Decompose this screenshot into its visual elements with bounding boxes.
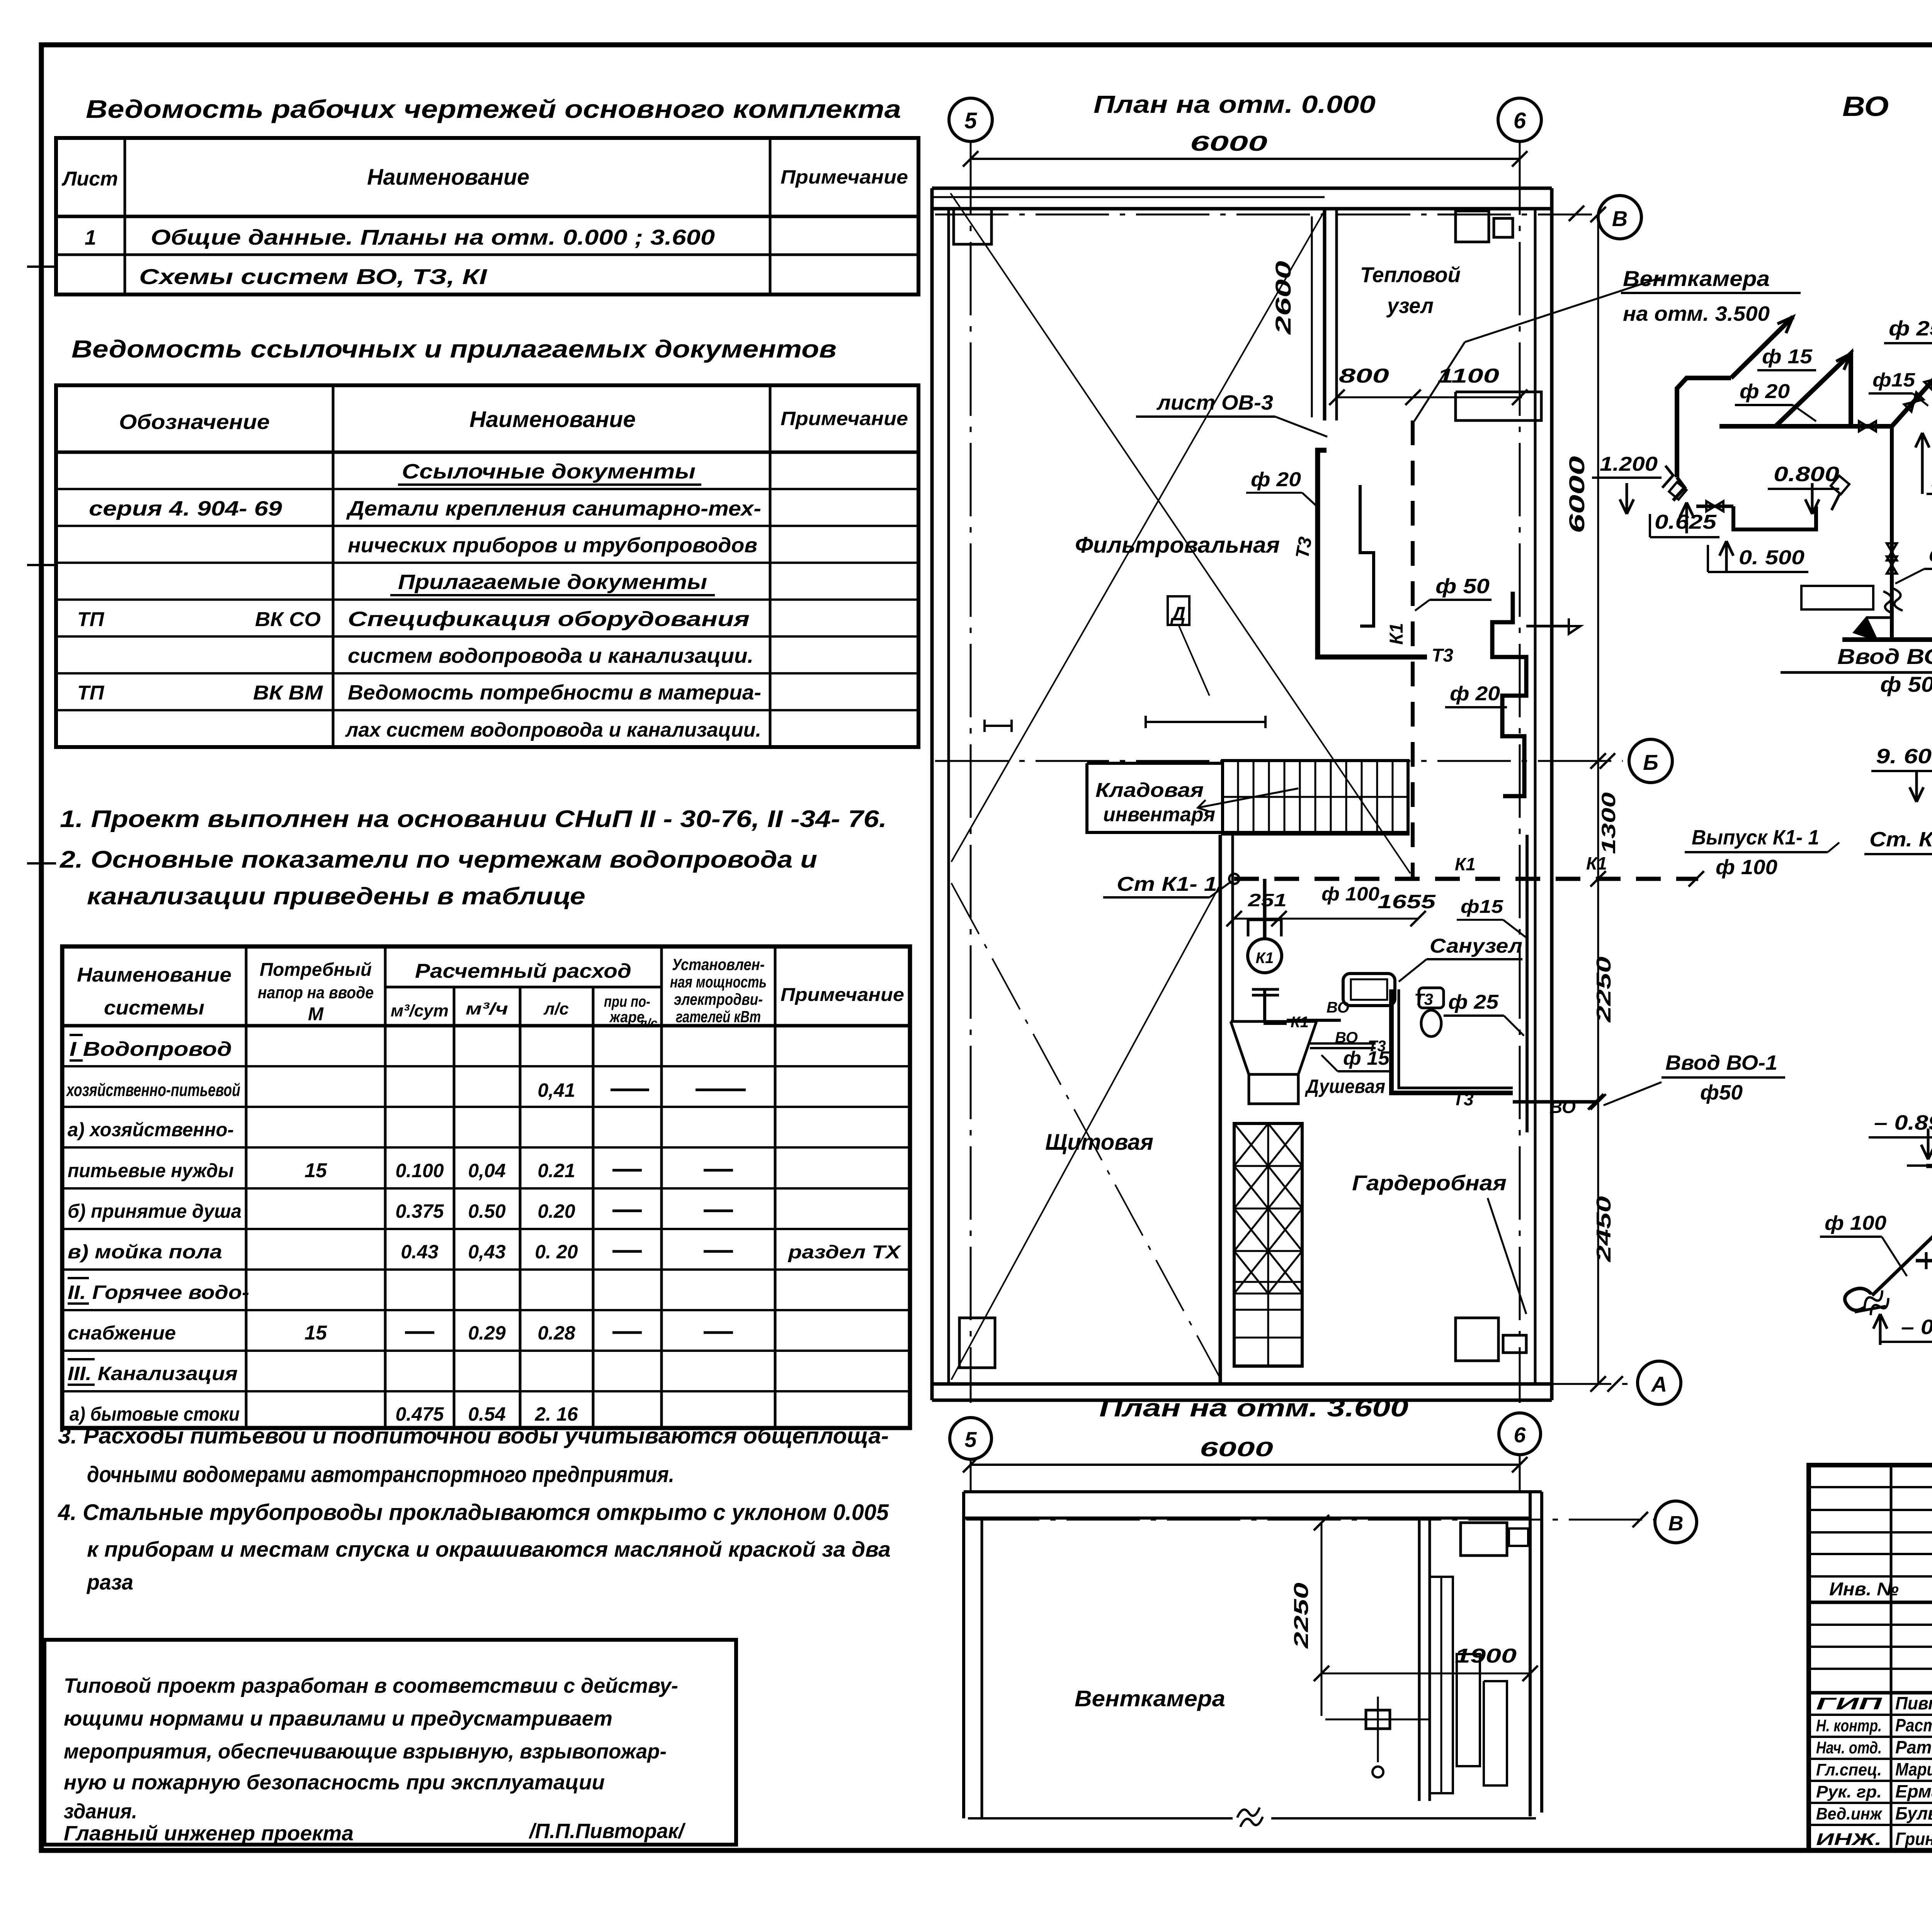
- axis A circle: [1638, 1361, 1681, 1404]
- svg-text:Т3: Т3: [1432, 645, 1453, 666]
- svg-text:Фильтровальная: Фильтровальная: [1075, 533, 1280, 558]
- svg-text:Венткамера: Венткамера: [1623, 266, 1770, 291]
- axis B line: [935, 214, 1592, 216]
- table 1 grid: [56, 138, 918, 294]
- svg-text:I Водопровод: I Водопровод: [70, 1038, 232, 1060]
- funnel branch down-left diagonal: [1872, 1166, 1932, 1295]
- St K1-1 label: [1229, 874, 1239, 884]
- diag cross hall upper: [951, 193, 1410, 873]
- lower sector walls: [1219, 835, 1222, 1384]
- svg-text:К1: К1: [1455, 854, 1476, 874]
- svg-text:ф 100: ф 100: [1321, 883, 1379, 905]
- svg-text:ВО: ВО: [1327, 999, 1349, 1016]
- svg-text:ИНЖ.: ИНЖ.: [1816, 1830, 1882, 1849]
- svg-text:План на отм. 0.000: План на отм. 0.000: [1094, 90, 1376, 118]
- svg-text:Б: Б: [1643, 750, 1658, 774]
- svg-text:ф 15: ф 15: [1762, 346, 1813, 368]
- svg-text:а) хозяйственно-: а) хозяйственно-: [68, 1119, 234, 1140]
- svg-text:ВО: ВО: [1842, 91, 1889, 122]
- svg-text:800: 800: [1339, 365, 1389, 387]
- svg-text:ВК ВМ: ВК ВМ: [253, 682, 323, 704]
- mid rows: [1809, 1624, 1932, 1626]
- svg-text:Лист: Лист: [61, 168, 118, 190]
- svg-text:Выпуск К1- 1: Выпуск К1- 1: [1692, 826, 1819, 849]
- svg-text:0.21: 0.21: [537, 1160, 575, 1181]
- inner right details: [1461, 1523, 1507, 1556]
- svg-text:Инв. №: Инв. №: [1829, 1579, 1899, 1600]
- dim 1900: [1321, 1673, 1530, 1675]
- svg-text:ную и пожарную безопасност: ную и пожарную безопасность при эксплуат…: [64, 1771, 605, 1794]
- svg-text:Гл.спец.: Гл.спец.: [1816, 1760, 1882, 1779]
- svg-text:– 0.897: – 0.897: [1874, 1111, 1932, 1134]
- svg-text:Щитовая: Щитовая: [1045, 1130, 1153, 1155]
- pipe T3 thick upper: [1318, 450, 1427, 657]
- svg-text:Кладовая: Кладовая: [1095, 779, 1204, 802]
- svg-text:Примечание: Примечание: [781, 985, 904, 1005]
- сифон bottom left: [1845, 1288, 1871, 1311]
- callout rect: [1801, 586, 1873, 609]
- D box: [1168, 596, 1189, 625]
- thick T3 pipe lower: [1391, 989, 1513, 1093]
- svg-text:в) мойка пола: в) мойка пола: [68, 1241, 222, 1263]
- svg-text:2. 16: 2. 16: [534, 1403, 578, 1425]
- svg-text:15: 15: [304, 1322, 327, 1344]
- svg-text:1655: 1655: [1378, 891, 1436, 912]
- svg-text:0,43: 0,43: [468, 1241, 506, 1263]
- svg-text:Ермакова: Ермакова: [1895, 1781, 1932, 1801]
- svg-text:Ст К1- 1: Ст К1- 1: [1117, 873, 1217, 895]
- axis 5 line: [970, 141, 972, 1403]
- svg-text:питьевые нужды: питьевые нужды: [68, 1160, 234, 1181]
- svg-text:ющими нормами и правилами: ющими нормами и правилами и предусматрив…: [64, 1707, 612, 1730]
- axis 5 circle lower: [950, 1418, 992, 1459]
- svg-text:ф 20: ф 20: [1450, 683, 1500, 705]
- svg-text:Спецификация оборудования: Спецификация оборудования: [348, 608, 750, 631]
- svg-text:– 0.86 4: – 0.86 4: [1901, 1316, 1932, 1339]
- seam marks left of stair: [985, 725, 1012, 727]
- svg-text:системы: системы: [104, 997, 204, 1019]
- svg-text:Санузел: Санузел: [1430, 935, 1522, 957]
- svg-text:м³/ч: м³/ч: [466, 999, 508, 1018]
- svg-text:мероприятия, обеспечивающие: мероприятия, обеспечивающие взрывную, вз…: [64, 1740, 667, 1763]
- svg-text:ф 100: ф 100: [1825, 1212, 1886, 1234]
- svg-text:нических приборов и трубопр: нических приборов и трубопроводов: [348, 534, 757, 557]
- svg-text:лах систем водопровода и к: лах систем водопровода и канализации.: [345, 719, 761, 741]
- svg-text:Схемы систем ВО, ТЗ, КI: Схемы систем ВО, ТЗ, КI: [139, 264, 488, 289]
- svg-text:/П.П.Пивторак/: /П.П.Пивторак/: [529, 1819, 686, 1843]
- vent chamber leader: [1465, 277, 1662, 342]
- heat unit south walls: [1456, 392, 1541, 420]
- svg-text:1. Проект выполнен на: 1. Проект выполнен на основании СНиП II …: [60, 806, 887, 832]
- sink fixture: [1343, 974, 1395, 1006]
- svg-text:Гринькина: Гринькина: [1895, 1829, 1932, 1849]
- svg-text:ф 25: ф 25: [1889, 317, 1932, 340]
- ввод ВО-1 leader: [1604, 1082, 1662, 1105]
- svg-text:2250: 2250: [1593, 957, 1615, 1023]
- right walls plan36: [1529, 1492, 1532, 1816]
- svg-text:ф50: ф50: [1700, 1081, 1743, 1104]
- svg-text:дочными водомерами автотра: дочными водомерами автотранспортного пре…: [87, 1462, 674, 1487]
- svg-text:II. Горячее водо-: II. Горячее водо-: [68, 1282, 249, 1303]
- column top-right: [1456, 211, 1489, 242]
- svg-text:ф 15: ф 15: [1343, 1047, 1390, 1069]
- staff rows: [1809, 1714, 1932, 1716]
- diag chain with valves: [1892, 326, 1932, 426]
- svg-text:Т3: Т3: [1292, 535, 1316, 560]
- title block vertical dividers left part: [1890, 1465, 1893, 1850]
- svg-text:напор на вводе: напор на вводе: [258, 983, 374, 1002]
- right pipe loop f20: [1492, 592, 1526, 796]
- svg-text:1: 1: [85, 226, 96, 249]
- stair flight: [1223, 761, 1408, 834]
- svg-text:5: 5: [964, 1427, 977, 1452]
- svg-text:Ведомость потребности в мат: Ведомость потребности в материа-: [348, 681, 761, 704]
- VO diag to arrow f15: [1731, 317, 1793, 378]
- svg-text:К1: К1: [1586, 853, 1607, 873]
- shower tray: [1231, 1021, 1316, 1074]
- svg-text:канализации приведены: канализации приведены в таблице: [87, 883, 585, 910]
- svg-text:Общие данные. Планы на отм: Общие данные. Планы на отм. 0.000 ; 3.60…: [151, 225, 715, 249]
- VO riser down: [1890, 426, 1894, 640]
- svg-text:серия 4. 904- 69: серия 4. 904- 69: [89, 497, 282, 520]
- svg-text:1100: 1100: [1437, 365, 1499, 387]
- axis Б line: [935, 760, 1623, 762]
- wardrobe shelving: [1234, 1123, 1302, 1366]
- svg-text:6: 6: [1514, 108, 1526, 133]
- svg-text:хозяйственно-питьевой: хозяйственно-питьевой: [66, 1080, 240, 1100]
- svg-text:5: 5: [964, 108, 977, 133]
- table 2 grid: [56, 385, 918, 747]
- svg-text:Булычева: Булычева: [1895, 1803, 1932, 1823]
- dashed K1 horizontal: [1234, 877, 1698, 881]
- vertical dim line right: [1597, 214, 1599, 1384]
- svg-text:15: 15: [304, 1159, 327, 1182]
- svg-text:л/с: л/с: [543, 999, 569, 1018]
- svg-text:при по-: при по-: [604, 993, 650, 1010]
- svg-text:Пивторак: Пивторак: [1895, 1693, 1932, 1713]
- svg-text:6000: 6000: [1190, 131, 1267, 155]
- svg-text:Прилагаемые документы: Прилагаемые документы: [398, 570, 707, 594]
- svg-text:6000: 6000: [1200, 1438, 1273, 1461]
- svg-text:6: 6: [1514, 1423, 1526, 1447]
- svg-text:ф 20: ф 20: [1251, 468, 1301, 491]
- BO pipe lower: [1513, 1100, 1598, 1104]
- svg-text:Растунова: Растунова: [1895, 1715, 1932, 1735]
- svg-text:0.475: 0.475: [395, 1403, 444, 1425]
- dim 6000 lower: [971, 1464, 1520, 1466]
- axis B circle: [1598, 196, 1641, 239]
- bottom wall with break: [968, 1817, 1233, 1819]
- svg-text:План на отм. 3.600: План на отм. 3.600: [1099, 1394, 1408, 1422]
- typical project statement box: [44, 1640, 736, 1845]
- ground line VO: [1842, 637, 1932, 642]
- column bottom-left: [959, 1318, 995, 1368]
- svg-text:ф 100: ф 100: [1716, 856, 1777, 879]
- svg-text:здания.: здания.: [64, 1800, 137, 1823]
- svg-text:Наименование: Наименование: [469, 407, 636, 432]
- svg-text:0,41: 0,41: [537, 1079, 575, 1101]
- svg-text:Т3: Т3: [1414, 990, 1433, 1008]
- dashed K1 vertical: [1411, 420, 1415, 879]
- svg-text:1.200: 1.200: [1600, 453, 1658, 475]
- svg-text:Нач. отд.: Нач. отд.: [1816, 1738, 1882, 1757]
- svg-text:Примечание: Примечание: [781, 408, 908, 429]
- svg-text:Ведомость рабочих чертежей: Ведомость рабочих чертежей основного ком…: [86, 95, 901, 123]
- svg-text:Д: Д: [1170, 603, 1185, 625]
- svg-text:0.28: 0.28: [537, 1322, 575, 1344]
- svg-text:Наименование: Наименование: [367, 165, 529, 190]
- svg-text:0.43: 0.43: [401, 1241, 439, 1263]
- svg-text:9. 600: 9. 600: [1876, 745, 1932, 768]
- svg-text:0.100: 0.100: [395, 1160, 444, 1181]
- svg-text:ГИП: ГИП: [1816, 1694, 1883, 1713]
- svg-text:0.800: 0.800: [1774, 463, 1839, 486]
- dim 2250 vertical: [1321, 1523, 1323, 1716]
- svg-text:Ввод ВО-1: Ввод ВО-1: [1837, 644, 1932, 669]
- svg-text:Потребный: Потребный: [260, 960, 372, 980]
- svg-text:л/с: л/с: [639, 1016, 658, 1030]
- left thin rows top: [1809, 1486, 1932, 1488]
- svg-text:0. 500: 0. 500: [1739, 546, 1804, 569]
- axis Б circle: [1629, 739, 1672, 783]
- svg-text:ТП: ТП: [77, 608, 105, 631]
- big triangle shower: [1776, 354, 1851, 426]
- svg-text:ф15: ф15: [1461, 897, 1503, 917]
- svg-text:Расчетный расход: Расчетный расход: [415, 960, 631, 982]
- svg-text:Душевая: Душевая: [1304, 1076, 1385, 1097]
- svg-text:м³/сут: м³/сут: [391, 1001, 449, 1020]
- svg-text:Рук. гр.: Рук. гр.: [1816, 1782, 1882, 1801]
- svg-text:а) бытовые стоки: а) бытовые стоки: [70, 1403, 240, 1425]
- svg-text:электродви-: электродви-: [674, 990, 763, 1008]
- svg-text:ф 50: ф 50: [1929, 543, 1932, 566]
- toilet fixture санузел: [1419, 988, 1444, 1008]
- svg-text:Марионков: Марионков: [1895, 1759, 1932, 1779]
- svg-text:251: 251: [1248, 890, 1287, 910]
- svg-text:к приборам и местам спуск: к приборам и местам спуска и окрашиваютс…: [87, 1537, 891, 1561]
- svg-text:ф15: ф15: [1872, 369, 1915, 391]
- svg-text:Венткамера: Венткамера: [1075, 1686, 1225, 1711]
- VO left riser: [1677, 378, 1731, 477]
- svg-text:Наименование: Наименование: [77, 964, 231, 986]
- svg-text:В: В: [1668, 1512, 1684, 1535]
- svg-text:А: А: [1651, 1372, 1667, 1396]
- axis B circle lower: [1655, 1501, 1697, 1543]
- heat unit west wall: [1323, 209, 1327, 420]
- svg-text:Ввод ВО-1: Ввод ВО-1: [1665, 1051, 1777, 1074]
- svg-text:К1: К1: [1256, 950, 1274, 967]
- svg-text:ВО: ВО: [1549, 1097, 1576, 1117]
- svg-text:К1: К1: [1386, 623, 1407, 645]
- walls plan36: [964, 1490, 1542, 1493]
- svg-text:Примечание: Примечание: [781, 166, 908, 188]
- svg-text:Главный инженер проекта: Главный инженер проекта: [64, 1822, 354, 1845]
- axis 6 line: [1519, 141, 1521, 1403]
- svg-text:2450: 2450: [1593, 1196, 1615, 1263]
- svg-text:2. Основные показатели: 2. Основные показатели по чертежам водоп…: [60, 846, 817, 873]
- svg-text:б) принятие душа: б) принятие душа: [68, 1200, 241, 1222]
- vent unit symbol: [1366, 1710, 1390, 1729]
- valve pair left: [1706, 501, 1723, 511]
- svg-text:Т3: Т3: [1453, 1089, 1474, 1109]
- svg-text:Ведомость ссылочных и пр: Ведомость ссылочных и прилагаемых докуме…: [71, 335, 837, 363]
- svg-text:Ссылочные документы: Ссылочные документы: [402, 460, 696, 483]
- stair arrow: [1198, 788, 1298, 808]
- svg-text:Типовой проект разработан: Типовой проект разработан в соответствии…: [64, 1674, 678, 1697]
- svg-text:1300: 1300: [1598, 792, 1619, 854]
- svg-text:раздел ТХ: раздел ТХ: [787, 1242, 902, 1263]
- top dimension 6000: [971, 158, 1520, 160]
- building walls plan0: [932, 187, 1552, 190]
- svg-text:ВК СО: ВК СО: [255, 608, 321, 631]
- svg-text:Ст. К1-1: Ст. К1-1: [1869, 828, 1932, 851]
- column top-left: [954, 209, 992, 244]
- table 3 grid: [62, 946, 910, 1428]
- svg-text:систем водопровода и канали: систем водопровода и канализации.: [348, 644, 753, 667]
- svg-text:III. Канализация: III. Канализация: [68, 1363, 238, 1384]
- svg-text:ф 20: ф 20: [1740, 380, 1790, 403]
- svg-text:ф 50: ф 50: [1435, 575, 1490, 598]
- svg-text:0. 20: 0. 20: [535, 1241, 578, 1263]
- axis 6 circle lower: [1499, 1413, 1541, 1455]
- svg-text:Вед.инж: Вед.инж: [1816, 1804, 1883, 1823]
- svg-text:0.29: 0.29: [468, 1322, 506, 1344]
- svg-text:2250: 2250: [1290, 1583, 1313, 1649]
- axis 6 circle: [1498, 98, 1541, 141]
- svg-text:раза: раза: [86, 1570, 133, 1594]
- svg-text:0.20: 0.20: [537, 1200, 575, 1222]
- column bottom-right: [1456, 1318, 1498, 1361]
- svg-text:0,04: 0,04: [468, 1160, 505, 1181]
- svg-text:Гардеробная: Гардеробная: [1352, 1171, 1507, 1195]
- svg-text:ф 25: ф 25: [1448, 991, 1499, 1013]
- axis 5 circle: [949, 98, 992, 141]
- svg-text:узел: узел: [1386, 293, 1434, 318]
- axis B line lower: [966, 1519, 1654, 1521]
- svg-text:3. Расходы питьевой и: 3. Расходы питьевой и подпиточной воды у…: [58, 1423, 889, 1448]
- svg-text:В: В: [1612, 206, 1628, 231]
- svg-text:0.375: 0.375: [395, 1200, 444, 1222]
- svg-text:ная мощность: ная мощность: [670, 973, 767, 991]
- svg-text:на отм. 3.500: на отм. 3.500: [1623, 302, 1770, 325]
- frame fold ticks: [27, 266, 56, 268]
- svg-text:ф 50: ф 50: [1880, 672, 1932, 696]
- horizontal run: [1719, 424, 1892, 429]
- svg-text:0.50: 0.50: [468, 1200, 506, 1222]
- storage room walls: [1087, 763, 1408, 832]
- K1 shower circle: [1248, 939, 1282, 973]
- tap symbol right wall: [1526, 625, 1569, 628]
- svg-text:снабжение: снабжение: [68, 1322, 176, 1344]
- small zigzag left bottom: [1673, 477, 1685, 500]
- diag cross hall lower: [951, 883, 1221, 1380]
- svg-text:4. Стальные трубопроводы: 4. Стальные трубопроводы прокладываются …: [58, 1500, 889, 1525]
- svg-text:Тепловой: Тепловой: [1360, 262, 1461, 287]
- title block outer: [1809, 1465, 1932, 1850]
- svg-text:ТП: ТП: [77, 682, 105, 704]
- axis A line: [935, 1383, 1631, 1385]
- svg-text:Ратников: Ратников: [1895, 1737, 1932, 1757]
- svg-text:М: М: [308, 1004, 324, 1025]
- svg-text:6000: 6000: [1565, 456, 1589, 533]
- svg-text:Н. контр.: Н. контр.: [1816, 1716, 1882, 1735]
- K1 bottom horizontal: [1926, 1164, 1932, 1168]
- svg-text:0.54: 0.54: [468, 1403, 505, 1425]
- svg-text:Детали крепления санитарно-т: Детали крепления санитарно-тех-: [346, 497, 761, 520]
- svg-text:1900: 1900: [1455, 1645, 1517, 1667]
- svg-text:Обозначение: Обозначение: [119, 410, 270, 434]
- svg-text:Установлен-: Установлен-: [672, 955, 765, 974]
- svg-text:гателей кВт: гателей кВт: [676, 1008, 761, 1026]
